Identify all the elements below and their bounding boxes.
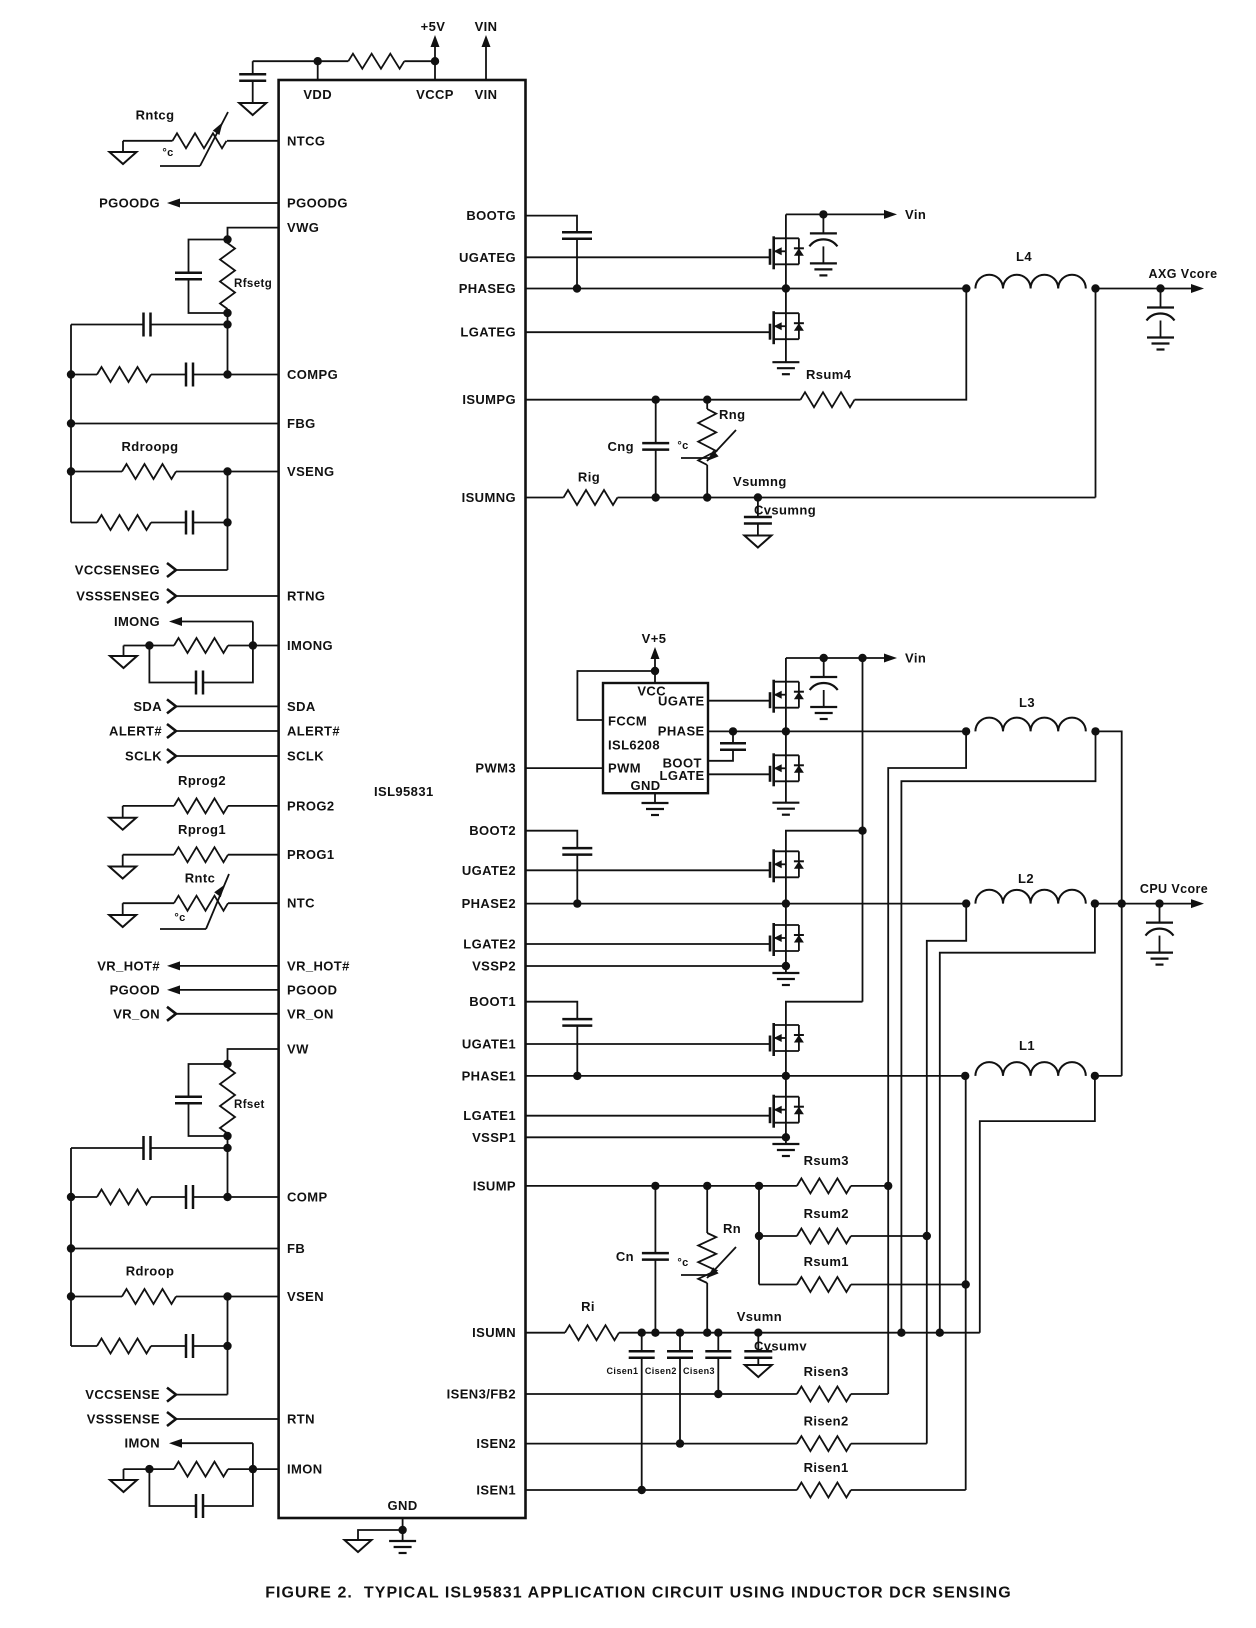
node VCCP junction	[431, 57, 439, 65]
svg-text:UGATE1: UGATE1	[462, 1037, 516, 1052]
ground Rntc	[122, 903, 124, 915]
svg-text:Risen1: Risen1	[804, 1460, 849, 1475]
node COMPG feedback junction	[223, 320, 231, 328]
wire L2 output sense to Vsumn	[940, 904, 1095, 1333]
transistor upper MOSFET 2 (UGATE2)	[769, 869, 771, 871]
node COMP feedback junction	[223, 1144, 231, 1152]
wire L1 out to Vcore rail	[1095, 1075, 1122, 1077]
svg-text:Rfsetg: Rfsetg	[234, 278, 272, 290]
ground lower MOSFET G	[772, 361, 799, 363]
wire Vin feed down	[862, 658, 864, 1002]
node phase 1	[782, 1072, 790, 1080]
svg-text:FB: FB	[287, 1241, 305, 1256]
node rail cap G	[819, 210, 827, 218]
capacitor IMONG	[149, 646, 196, 683]
ground GND earth symbol	[402, 1530, 404, 1541]
svg-text:°c: °c	[677, 440, 688, 452]
capacitor bootstrap G	[562, 231, 592, 234]
svg-text:PGOODG: PGOODG	[287, 196, 348, 211]
resistor Rsum4	[801, 392, 855, 407]
resistor VSEN lower branch	[71, 1345, 97, 1347]
svg-text:SCLK: SCLK	[125, 749, 162, 764]
svg-text:Vsumn: Vsumn	[737, 1309, 782, 1324]
ground VDD cap	[239, 103, 266, 115]
ground GND arrow symbol	[358, 1530, 403, 1540]
svg-text:GND: GND	[388, 1498, 418, 1513]
ground ISL6208 GND	[654, 793, 656, 803]
svg-text:ISEN2: ISEN2	[476, 1436, 516, 1451]
svg-text:PHASE1: PHASE1	[462, 1068, 516, 1083]
node Rfsetg bottom	[223, 309, 231, 317]
node GND junction	[398, 1526, 406, 1534]
wire BOOTG to bootstrap cap	[526, 216, 578, 233]
svg-text:PROG2: PROG2	[287, 798, 335, 813]
wire left feedback bus	[70, 1148, 72, 1346]
node Rfsetg top	[223, 235, 231, 243]
svg-text:VR_ON: VR_ON	[113, 1006, 160, 1021]
wire Rsum4 to phase G	[855, 289, 967, 400]
svg-text:VSSSENSEG: VSSSENSEG	[76, 589, 160, 604]
node COMP left	[67, 1193, 75, 1201]
svg-text:BOOT2: BOOT2	[469, 823, 516, 838]
resistor Rfset	[220, 1068, 235, 1134]
capacitor COMP compensation	[151, 1196, 186, 1198]
capacitor VDD decoupling	[252, 61, 254, 74]
svg-text:V+5: V+5	[642, 631, 667, 646]
svg-text:UGATE2: UGATE2	[462, 863, 516, 878]
pin RTNG / VSSSENSEG input	[167, 589, 176, 603]
svg-text:RTNG: RTNG	[287, 589, 325, 604]
svg-text:VIN: VIN	[475, 87, 498, 102]
capacitor AXG Vcore output with ground	[1160, 289, 1162, 308]
node rail cap 3	[820, 654, 828, 662]
node Cisen1 top	[638, 1329, 646, 1337]
svg-text:VR_HOT#: VR_HOT#	[97, 958, 160, 973]
svg-text:ISUMN: ISUMN	[472, 1325, 516, 1340]
svg-text:Risen2: Risen2	[804, 1414, 849, 1429]
resistor VSENG lower branch	[71, 522, 97, 524]
node L1 left	[961, 1072, 969, 1080]
capacitor Cvsumv with ground	[757, 1333, 759, 1352]
node Cng top	[652, 396, 660, 404]
inductor L4	[975, 275, 1085, 289]
pin VCCP with +5V arrow	[434, 47, 436, 80]
node CPU output cap	[1155, 899, 1163, 907]
wire BOOT return 3	[708, 750, 733, 761]
capacitor bootstrap 3	[732, 731, 734, 743]
svg-text:SDA: SDA	[287, 699, 316, 714]
svg-text:ALERT#: ALERT#	[109, 724, 162, 739]
svg-text:ISUMP: ISUMP	[473, 1178, 516, 1193]
svg-text:Cisen2: Cisen2	[645, 1366, 677, 1376]
node Vin feed BOOT2 rail	[858, 827, 866, 835]
svg-text:Rsum3: Rsum3	[804, 1153, 849, 1168]
svg-text:PROG1: PROG1	[287, 847, 335, 862]
svg-text:VSENG: VSENG	[287, 464, 335, 479]
wire Risen2 to phase2 sense	[851, 1443, 927, 1445]
node COMP pin junction	[223, 1193, 231, 1201]
node Rsum2 left	[755, 1232, 763, 1240]
pin VCCSENSEG input	[167, 563, 176, 577]
node Cisen3 top	[714, 1329, 722, 1337]
svg-text:Rsum2: Rsum2	[804, 1206, 849, 1221]
resistor Rng NTC	[706, 400, 708, 409]
svg-text:Cng: Cng	[608, 439, 634, 454]
svg-text:Rng: Rng	[719, 407, 745, 422]
svg-text:VSSP2: VSSP2	[472, 959, 516, 974]
svg-text:°c: °c	[677, 1257, 688, 1269]
svg-text:Rsum4: Rsum4	[806, 367, 852, 382]
capacitor COMPG compensation	[151, 374, 186, 376]
svg-text:L4: L4	[1016, 249, 1032, 264]
driver U2 ISL6208 box	[603, 683, 708, 793]
capacitor CPU Vcore output with ground	[1159, 904, 1161, 923]
resistor Rsum2	[759, 1235, 797, 1237]
svg-text:COMPG: COMPG	[287, 367, 338, 382]
wire VDD to decoupling cap	[253, 60, 318, 62]
node FCCM tie	[651, 667, 659, 675]
svg-text:VIN: VIN	[475, 19, 498, 34]
pin VIN with VIN arrow	[485, 47, 487, 80]
node Vin feed	[858, 654, 866, 662]
wire CPU Vcore output	[1095, 903, 1191, 905]
node L2 right	[1091, 899, 1099, 907]
svg-text:VW: VW	[287, 1042, 309, 1057]
svg-text:+5V: +5V	[421, 19, 446, 34]
node Cng bottom	[652, 493, 660, 501]
resistor Risen2	[797, 1436, 851, 1451]
svg-text:GND: GND	[630, 778, 660, 793]
transistor upper MOSFET G (UGATEG)	[769, 256, 771, 258]
node VSENG junction	[223, 467, 231, 475]
inductor L1	[975, 1062, 1085, 1076]
node IMONG right	[249, 641, 257, 649]
svg-text:RTN: RTN	[287, 1412, 315, 1427]
node bootstrap-PHASE1	[573, 1072, 581, 1080]
svg-text:IMON: IMON	[287, 1462, 323, 1477]
wire Risen1 to phase1 sense	[851, 1489, 966, 1491]
node bootstrap-PHASEG	[573, 284, 581, 292]
svg-text:BOOT1: BOOT1	[469, 994, 516, 1009]
wire FCCM to VCC	[577, 671, 655, 720]
node COMPG pin junction	[223, 370, 231, 378]
wire Risen3 to phase3 sense	[851, 1393, 888, 1395]
transistor lower MOSFET 3 (LGATE)	[769, 773, 771, 775]
resistor COMP compensation	[71, 1196, 97, 1198]
svg-text:LGATE1: LGATE1	[463, 1108, 516, 1123]
wire AXG Vcore output	[1096, 288, 1192, 290]
node bootstrap-PHASE2	[573, 899, 581, 907]
node Cisen3 bottom	[714, 1390, 722, 1398]
svg-text:PGOOD: PGOOD	[110, 982, 160, 997]
resistor Rfsetg	[220, 243, 235, 309]
node AXG output cap	[1156, 284, 1164, 292]
svg-text:ISL6208: ISL6208	[608, 738, 660, 753]
ground lower MOSFET 3	[772, 802, 799, 804]
capacitor across Rfset	[189, 1064, 228, 1097]
node Rsum2 right	[923, 1232, 931, 1240]
capacitor across Rfsetg	[189, 240, 228, 273]
node Cn top	[651, 1182, 659, 1190]
ground IMON	[123, 1469, 125, 1480]
svg-text:L1: L1	[1019, 1038, 1035, 1053]
node L2 left	[962, 899, 970, 907]
resistor Risen3	[797, 1387, 851, 1402]
svg-text:VSSSENSE: VSSSENSE	[87, 1412, 160, 1427]
svg-text:Rntcg: Rntcg	[136, 108, 175, 123]
svg-text:Ri: Ri	[581, 1299, 595, 1314]
node Rng top	[703, 396, 711, 404]
svg-text:ISUMPG: ISUMPG	[462, 392, 516, 407]
svg-text:ALERT#: ALERT#	[287, 724, 340, 739]
transistor lower MOSFET 1 (LGATE1)	[769, 1115, 771, 1117]
svg-text:LGATEG: LGATEG	[460, 325, 516, 340]
svg-text:LGATE: LGATE	[660, 768, 705, 783]
node Rfset top	[223, 1060, 231, 1068]
node lower branch	[223, 1342, 231, 1350]
node L3 right	[1091, 727, 1099, 735]
svg-text:NTCG: NTCG	[287, 133, 325, 148]
node Rsum3 right	[884, 1182, 892, 1190]
svg-text:LGATE2: LGATE2	[463, 937, 516, 952]
svg-text:Rdroop: Rdroop	[126, 1264, 175, 1279]
ground Rntcg	[122, 141, 124, 152]
resistor Rsum3	[797, 1178, 851, 1193]
svg-text:UGATE: UGATE	[658, 694, 705, 709]
svg-text:Rig: Rig	[578, 470, 600, 485]
node L1 right	[1091, 1072, 1099, 1080]
resistor COMPG compensation	[71, 374, 97, 376]
resistor Rsum1	[759, 1284, 797, 1286]
capacitor VSENG lower branch	[151, 522, 186, 524]
capacitor COMPG top feedback	[151, 324, 228, 326]
svg-text:Vsumng: Vsumng	[733, 474, 787, 489]
svg-text:ISEN1: ISEN1	[476, 1483, 516, 1498]
wire UGATE to upper MOSFET 3	[708, 700, 770, 702]
wire phase2 sense to Rsum2/Risen2	[927, 904, 966, 1444]
svg-text:Risen3: Risen3	[804, 1364, 849, 1379]
svg-text:BOOTG: BOOTG	[466, 208, 516, 223]
svg-text:IMON: IMON	[124, 1436, 160, 1451]
svg-text:Rntc: Rntc	[185, 871, 216, 886]
capacitor Cng	[655, 400, 657, 444]
node VSSP1	[782, 1133, 790, 1141]
wire Rsum3 to phase3 sense	[851, 1185, 888, 1187]
svg-text:ISUMNG: ISUMNG	[462, 490, 516, 505]
node IMON left	[145, 1465, 153, 1473]
capacitor VSEN lower branch	[151, 1345, 186, 1347]
pin RTN / VSSSENSE input	[167, 1412, 176, 1426]
node COMPG left	[67, 370, 75, 378]
svg-text:L2: L2	[1018, 871, 1034, 886]
svg-text:FIGURE 2. TYPICAL ISL95831 AP: FIGURE 2. TYPICAL ISL95831 APPLICATION C…	[265, 1585, 1012, 1602]
svg-text:Vin: Vin	[905, 207, 926, 222]
svg-text:VCCSENSE: VCCSENSE	[85, 1387, 160, 1402]
transistor lower MOSFET G (LGATEG)	[769, 331, 771, 333]
node Cisen1 bottom	[638, 1486, 646, 1494]
svg-text:°c: °c	[174, 912, 185, 924]
node Rfset bottom	[223, 1132, 231, 1140]
svg-text:Cvsumng: Cvsumng	[754, 503, 816, 518]
ground lower MOSFET 2	[785, 966, 787, 973]
svg-text:°c: °c	[162, 147, 173, 159]
pin VDD	[317, 61, 319, 80]
node Rn bottom	[703, 1329, 711, 1337]
pin SCLK input	[167, 749, 176, 763]
node Rn top	[703, 1182, 711, 1190]
svg-text:VWG: VWG	[287, 220, 319, 235]
pin PGOOD output arrow	[180, 989, 279, 991]
svg-text:Cvsumv: Cvsumv	[754, 1339, 807, 1354]
svg-text:PHASE: PHASE	[658, 724, 705, 739]
resistor IMON	[228, 1468, 253, 1470]
wire L3 out to Vcore rail	[1096, 731, 1122, 1076]
svg-text:IMONG: IMONG	[114, 614, 160, 629]
svg-text:PHASE2: PHASE2	[462, 896, 516, 911]
node VSSP2	[782, 962, 790, 970]
pin SDA input	[167, 699, 176, 713]
pin ALERT# input	[167, 724, 176, 738]
svg-text:PGOOD: PGOOD	[287, 982, 337, 997]
wire VW to Rfset	[228, 1049, 279, 1064]
node L4 left	[962, 284, 970, 292]
transistor upper MOSFET 1 (UGATE1)	[769, 1043, 771, 1045]
svg-text:Cisen3: Cisen3	[683, 1366, 715, 1376]
svg-text:PWM: PWM	[608, 761, 641, 776]
node Rsum1 right	[962, 1280, 970, 1288]
svg-text:FBG: FBG	[287, 416, 316, 431]
resistor IMONG	[228, 645, 253, 647]
pin VCCSENSE input	[167, 1388, 176, 1402]
capacitor Cvsumng with ground	[757, 498, 759, 517]
node L3 out sense join	[897, 1329, 905, 1337]
node Cisen2 top	[676, 1329, 684, 1337]
wire VWG to Rfsetg	[228, 228, 279, 240]
svg-text:Rprog2: Rprog2	[178, 773, 226, 788]
svg-text:UGATEG: UGATEG	[459, 250, 516, 265]
capacitor IMON	[149, 1469, 196, 1506]
wire Vsumng to L4 right	[1095, 289, 1097, 498]
transistor upper MOSFET 3 (UGATE)	[769, 700, 771, 702]
svg-text:ISEN3/FB2: ISEN3/FB2	[447, 1387, 516, 1402]
svg-text:L3: L3	[1019, 695, 1035, 710]
svg-text:SDA: SDA	[133, 699, 162, 714]
svg-text:AXG Vcore: AXG Vcore	[1149, 267, 1218, 281]
pin VR_HOT# output arrow	[180, 965, 279, 967]
wire L1 output sense to Vsumn	[980, 1076, 1095, 1333]
wire LGATE to lower MOSFET 3	[708, 773, 770, 775]
capacitor bootstrap 1	[562, 1018, 592, 1021]
transistor lower MOSFET 2 (LGATE2)	[769, 943, 771, 945]
wire L3 output sense to Vsumn	[901, 731, 1095, 1332]
svg-text:PHASEG: PHASEG	[459, 281, 516, 296]
inductor L3	[975, 718, 1085, 732]
node L2 out sense join	[936, 1329, 944, 1337]
svg-text:Rfset: Rfset	[234, 1099, 265, 1111]
ground Rprog1	[122, 855, 124, 867]
capacitor Cisen1	[641, 1333, 643, 1352]
pin IMONG output arrow	[169, 617, 182, 626]
svg-text:VSEN: VSEN	[287, 1289, 324, 1304]
svg-text:FCCM: FCCM	[608, 713, 647, 728]
pin IMON output arrow	[169, 1439, 182, 1448]
ground Rprog2	[122, 806, 124, 818]
node Cvsumng	[754, 493, 762, 501]
IC U1 ISL95831 body	[279, 80, 526, 1518]
svg-text:VR_HOT#: VR_HOT#	[287, 958, 350, 973]
inductor L2	[975, 890, 1085, 904]
capacitor Vin rail 3 with ground	[823, 658, 825, 677]
wire Rsum bus	[758, 1186, 760, 1285]
svg-text:NTC: NTC	[287, 896, 315, 911]
node Rsum bus top	[755, 1182, 763, 1190]
pin PGOODG output arrow	[180, 202, 279, 204]
node Cisen2 bottom	[676, 1439, 684, 1447]
node Rng bottom	[703, 493, 711, 501]
node Vcore rail tie	[1118, 899, 1126, 907]
svg-text:Rdroopg: Rdroopg	[122, 439, 179, 454]
node Cvsumv top	[754, 1329, 762, 1337]
node lower branch G	[223, 518, 231, 526]
wire Vin rail 3	[786, 657, 884, 659]
svg-text:Rsum1: Rsum1	[804, 1254, 849, 1269]
svg-text:IMONG: IMONG	[287, 638, 333, 653]
svg-text:PGOODG: PGOODG	[99, 196, 160, 211]
svg-text:Cisen1: Cisen1	[607, 1366, 639, 1376]
node phase 2	[782, 899, 790, 907]
wire Vin rail G	[786, 213, 884, 215]
wire VCC to V+5 arrow	[654, 659, 656, 683]
svg-text:Rn: Rn	[723, 1221, 741, 1236]
resistor VDD-VCCP	[318, 60, 349, 62]
svg-text:VCCSENSEG: VCCSENSEG	[75, 563, 160, 578]
svg-text:COMP: COMP	[287, 1190, 328, 1205]
svg-text:Cn: Cn	[616, 1249, 634, 1264]
resistor Rntcg NTC thermistor	[227, 140, 279, 142]
node VSEN junction	[223, 1292, 231, 1300]
svg-text:VDD: VDD	[303, 87, 332, 102]
node L4 right	[1091, 284, 1099, 292]
wire left feedback bus G	[70, 325, 72, 523]
node Cn bottom	[651, 1329, 659, 1337]
resistor Risen1	[797, 1483, 851, 1498]
capacitor Cisen3	[717, 1333, 719, 1352]
svg-text:Rprog1: Rprog1	[178, 822, 226, 837]
capacitor COMP top feedback	[151, 1147, 228, 1149]
svg-text:SCLK: SCLK	[287, 749, 324, 764]
svg-text:PWM3: PWM3	[475, 761, 516, 776]
capacitor Vin rail G with ground	[822, 214, 824, 233]
node VDD junction	[314, 57, 322, 65]
node phase 3	[782, 727, 790, 735]
capacitor bootstrap 2	[562, 847, 592, 850]
svg-text:VSSP1: VSSP1	[472, 1130, 516, 1145]
ground IMONG	[123, 646, 125, 657]
node IMONG left	[145, 641, 153, 649]
svg-text:Vin: Vin	[905, 651, 926, 666]
resistor Rn NTC	[706, 1186, 708, 1233]
wire phase1 sense to Rsum1/Risen1	[965, 1076, 967, 1490]
wire phase3 sense to Rsum3/Risen3	[888, 731, 966, 1394]
svg-text:VCCP: VCCP	[416, 87, 454, 102]
ground lower MOSFET 1	[785, 1137, 787, 1144]
node IMON right	[249, 1465, 257, 1473]
capacitor Cn	[654, 1186, 656, 1253]
node phase G	[782, 284, 790, 292]
svg-text:CPU Vcore: CPU Vcore	[1140, 882, 1208, 896]
capacitor Cisen2	[679, 1333, 681, 1352]
wire PHASE row 3	[708, 730, 966, 732]
